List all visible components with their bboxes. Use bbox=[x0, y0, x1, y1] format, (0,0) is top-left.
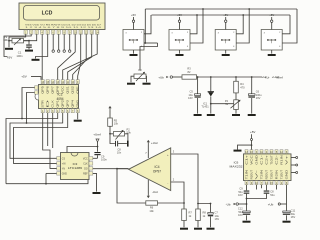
svg-text:QS1: QS1 bbox=[67, 85, 70, 94]
svg-text:QP6: QP6 bbox=[47, 85, 50, 94]
svg-text:-IN: -IN bbox=[62, 169, 65, 171]
IC3 left pin row bbox=[57, 157, 61, 160]
svg-text:D: D bbox=[47, 99, 50, 108]
svg-text:GND: GND bbox=[285, 170, 288, 180]
wire +5V to IC2 pin16 bbox=[31, 77, 41, 80]
wire S3 output B to bus bbox=[236, 9, 249, 43]
svg-text:T2IN: T2IN bbox=[260, 170, 263, 180]
ground (P3 right) bbox=[143, 83, 151, 85]
capacitor C8 10n bbox=[110, 134, 115, 144]
potentiometer P1 (LCD contrast) bbox=[12, 39, 24, 43]
svg-text:R2OUT: R2OUT bbox=[265, 169, 268, 179]
svg-text:+5V: +5V bbox=[250, 130, 255, 134]
svg-text:IC4: IC4 bbox=[155, 165, 160, 169]
wire -Ub node bbox=[238, 203, 246, 205]
svg-text:QS2: QS2 bbox=[72, 85, 75, 94]
wire LCD D0 open stub bbox=[52, 34, 54, 50]
capacitor C8b 50u (V-) bbox=[266, 185, 268, 191]
ground (IC6 top) bbox=[234, 150, 242, 152]
svg-text:16V: 16V bbox=[238, 213, 243, 217]
svg-text:10n: 10n bbox=[117, 151, 122, 155]
capacitor C5 10u bbox=[197, 76, 199, 78]
svg-text:REF: REF bbox=[83, 174, 88, 176]
wire IC3 analog input from op-amp output bbox=[93, 168, 129, 170]
svg-text:16V: 16V bbox=[188, 96, 193, 100]
wire LCD pin2 VDD to +5V bbox=[4, 34, 31, 56]
wire IC3 Vcc to +Uref node bbox=[67, 147, 98, 153]
ground (LCD supply) bbox=[5, 48, 13, 50]
svg-text:R8: R8 bbox=[203, 211, 207, 215]
sensor S3 body bbox=[215, 30, 236, 51]
svg-text:C1+: C1+ bbox=[245, 154, 248, 165]
svg-text:100n: 100n bbox=[16, 54, 23, 58]
svg-text:VCC: VCC bbox=[250, 155, 253, 165]
svg-text:100n: 100n bbox=[101, 158, 107, 162]
wire LCD D6 to IC2 bbox=[68, 34, 92, 79]
svg-text:+Uref: +Uref bbox=[275, 75, 283, 79]
IC6 top pin row bbox=[245, 150, 248, 154]
svg-text:-Ucc: -Ucc bbox=[152, 190, 159, 194]
svg-text:V+: V+ bbox=[285, 154, 288, 165]
svg-text:QP4: QP4 bbox=[72, 99, 75, 108]
wire R5 to trimmer P2 bbox=[110, 126, 113, 134]
trimmer P2 (offset) bbox=[113, 132, 124, 136]
ground (C8, vertical bar) bbox=[127, 141, 129, 147]
sensor S1 body bbox=[123, 30, 144, 51]
sensor S2 body bbox=[169, 30, 190, 51]
ADC IC3 LTC1286 body bbox=[61, 153, 90, 180]
svg-text:T1OUT: T1OUT bbox=[270, 155, 273, 165]
svg-text:TL431: TL431 bbox=[201, 105, 209, 109]
wire +Ub node bbox=[281, 203, 287, 205]
wire IC2 pin stub down bbox=[47, 113, 49, 146]
shunt regulator IC1 TL431 bbox=[210, 76, 212, 78]
svg-text:+Uref: +Uref bbox=[93, 132, 101, 136]
LCD display window bbox=[24, 6, 100, 21]
wire S1 output A to bus bbox=[144, 15, 151, 34]
wire LCD D3 to IC2 bbox=[58, 34, 75, 79]
wire op-amp output feedback loop bbox=[117, 169, 146, 203]
wire IC2 pin down left of IC3 bbox=[43, 113, 57, 168]
ground (P3 left) bbox=[127, 83, 135, 85]
wire LCD RS to IC2 bbox=[41, 34, 43, 79]
LCD module LC1 outer body bbox=[19, 3, 105, 30]
IC2 left pin row bbox=[35, 86, 38, 89]
IC3 right pin row bbox=[89, 157, 93, 160]
resistor R3 bbox=[182, 75, 197, 79]
wire R6 to node bbox=[158, 202, 185, 204]
wire IC2 pin to IC3 pin1 via left bbox=[10, 113, 63, 158]
svg-text:+5V: +5V bbox=[223, 13, 228, 17]
wire S2 output A to bus bbox=[190, 15, 197, 34]
capacitor C1 100n bbox=[28, 41, 30, 45]
ground (IC2) bbox=[74, 120, 82, 122]
wire pot left end to ground rail bbox=[9, 40, 12, 42]
svg-text:T1IN: T1IN bbox=[245, 170, 248, 180]
capacitor C9 100n bbox=[94, 152, 100, 153]
capacitor C7 10u bbox=[198, 204, 211, 213]
wire LCD R/W to ground bbox=[36, 34, 48, 58]
sensor bus wire upper bbox=[145, 8, 297, 10]
svg-text:P3: P3 bbox=[138, 68, 142, 72]
wire IC2 pin to IC3 pin2 via left bbox=[14, 113, 68, 163]
ground (C6) bbox=[248, 114, 256, 116]
svg-text:R1OUT: R1OUT bbox=[250, 169, 253, 179]
svg-text:VSS VDD VO RS R/W E D0 D1 D2 D: VSS VDD VO RS R/W E D0 D1 D2 D3 D4 D5 D6… bbox=[25, 24, 102, 26]
trimmer P3 (bridge balance) bbox=[134, 74, 146, 78]
resistor R4 bbox=[235, 76, 237, 78]
wire LCD pin3 VO to contrast pot bbox=[24, 34, 37, 41]
resistor R8 1k bbox=[197, 203, 199, 205]
capacitor C9 50u bbox=[246, 185, 248, 191]
wire IC6 spare pin stubs bbox=[256, 185, 258, 190]
capacitor C6 100u bbox=[251, 76, 253, 78]
svg-text:GND: GND bbox=[62, 174, 67, 176]
IC6 bottom pin row bbox=[245, 181, 248, 185]
svg-text:10k: 10k bbox=[114, 122, 119, 126]
wire P4 to ground bbox=[235, 110, 237, 114]
op-amp IC4 OP97 bbox=[129, 148, 171, 191]
wire LCD pin1 VSS to ground bbox=[9, 34, 26, 47]
resistor R6 feedback bbox=[146, 201, 158, 205]
svg-text:QP5: QP5 bbox=[42, 85, 45, 94]
resistor R7 1k bbox=[183, 203, 185, 209]
sensor S4 body bbox=[261, 30, 282, 51]
svg-text:+Ucc: +Ucc bbox=[151, 141, 158, 145]
ground (R8) bbox=[194, 228, 202, 230]
svg-text:VCC: VCC bbox=[83, 159, 88, 161]
ground (IC1) bbox=[207, 114, 215, 116]
svg-text:C2-: C2- bbox=[275, 155, 278, 165]
svg-text:16V: 16V bbox=[256, 96, 261, 100]
wire R4 to P4 bbox=[235, 93, 237, 100]
svg-text:VCC: VCC bbox=[62, 86, 65, 94]
wire bottom loop to IC3 bbox=[6, 180, 88, 184]
ground (sensor S3) bbox=[225, 50, 227, 54]
ground (R/W) bbox=[32, 59, 40, 61]
wire LCD D5 to IC2 bbox=[73, 34, 87, 79]
svg-text:DO: DO bbox=[84, 169, 88, 171]
svg-text:-Ub: -Ub bbox=[226, 202, 231, 206]
wire P3 right to ground bbox=[145, 76, 148, 82]
ground (C11) bbox=[283, 221, 291, 223]
svg-text:MAX232: MAX232 bbox=[230, 165, 243, 169]
svg-text:+5V: +5V bbox=[177, 13, 182, 17]
svg-text:16V: 16V bbox=[215, 217, 220, 221]
svg-text:R1IN: R1IN bbox=[280, 155, 283, 165]
IC2 bottom pin row bbox=[41, 109, 44, 113]
svg-text:1 2 3 4 5 6 7 8 9 10 11 12 13: 1 2 3 4 5 6 7 8 9 10 11 12 13 14 bbox=[25, 27, 103, 29]
wire IC2 pin8 to ground bbox=[77, 113, 79, 119]
ground (sensor S2) bbox=[179, 50, 181, 54]
svg-text:C2+: C2+ bbox=[265, 154, 268, 165]
svg-text:QP8: QP8 bbox=[57, 85, 60, 94]
svg-text:+Ub: +Ub bbox=[268, 202, 274, 206]
wire P4 wiper to TL431 leg bbox=[211, 103, 234, 105]
wire LCD D4 to IC2 bbox=[78, 34, 81, 79]
wire S3 output A to bus bbox=[236, 15, 243, 34]
wire P3 left to ground bbox=[131, 76, 134, 82]
ground (C7) bbox=[207, 228, 215, 230]
svg-text:GND: GND bbox=[255, 155, 258, 165]
svg-text:+Ub: +Ub bbox=[158, 76, 164, 80]
ground (C5) bbox=[194, 114, 202, 116]
wire LCD D1 open stub bbox=[58, 34, 60, 50]
svg-text:GND: GND bbox=[77, 100, 80, 108]
capacitor C12 electrolytic bbox=[246, 204, 248, 211]
svg-text:OE: OE bbox=[77, 85, 80, 93]
svg-text:+5V: +5V bbox=[21, 75, 26, 79]
wire +Uref down bbox=[97, 142, 99, 152]
svg-text:10k: 10k bbox=[3, 38, 8, 42]
svg-text:IC3: IC3 bbox=[73, 162, 78, 166]
svg-text:+IN: +IN bbox=[62, 164, 66, 166]
ground (sensor S4) bbox=[271, 50, 273, 54]
svg-text:R7: R7 bbox=[189, 211, 193, 215]
-Ucc supply (op-amp pin 4) bbox=[147, 180, 149, 194]
ground (sensor S1) bbox=[133, 50, 135, 54]
+Ucc supply (op-amp pin 7) bbox=[147, 145, 149, 159]
wire IC3 pin4 to bottom loop bbox=[45, 173, 47, 183]
svg-text:QP7: QP7 bbox=[52, 85, 55, 94]
svg-text:V-: V- bbox=[255, 169, 258, 179]
wire S1 output to trimmer P3 bbox=[140, 43, 158, 71]
wire IC2 pin to far-left loop bbox=[6, 113, 58, 184]
wire LCD D2 open stub bbox=[63, 34, 65, 50]
ground (P4) bbox=[232, 114, 240, 116]
svg-text:STR: STR bbox=[42, 100, 45, 108]
driver IC6 MAX232 body bbox=[244, 154, 292, 181]
svg-text:CS: CS bbox=[62, 159, 66, 161]
svg-text:50u: 50u bbox=[270, 193, 275, 197]
wire LCD D3 open stub bbox=[69, 34, 71, 50]
svg-text:QP2: QP2 bbox=[62, 99, 65, 108]
sensor bus wire lower bbox=[152, 14, 291, 16]
wire LCD D7 to IC2 bbox=[63, 34, 97, 79]
IC2 top pin row bbox=[41, 80, 44, 84]
shift register IC2 4094 body bbox=[39, 85, 79, 109]
svg-text:+5V: +5V bbox=[7, 55, 12, 59]
wire S4 output A to bus bbox=[282, 15, 290, 34]
wire ground to +5V node bbox=[238, 145, 252, 150]
capacitor C11 50u bbox=[286, 185, 288, 211]
svg-text:+Ur: +Ur bbox=[265, 75, 270, 79]
svg-text:CLK: CLK bbox=[83, 164, 88, 166]
svg-text:T2OUT: T2OUT bbox=[270, 169, 273, 179]
svg-text:T1OUT: T1OUT bbox=[280, 169, 283, 179]
wire S1 output B to bus bbox=[144, 42, 158, 44]
ground (R7) bbox=[180, 228, 188, 230]
svg-text:OP97: OP97 bbox=[153, 170, 161, 174]
svg-text:R2IN: R2IN bbox=[275, 170, 278, 180]
wire regulator rail bbox=[197, 76, 263, 78]
svg-text:16V: 16V bbox=[291, 215, 296, 219]
svg-text:LCD: LCD bbox=[42, 10, 53, 16]
svg-text:CLK: CLK bbox=[52, 99, 55, 107]
wire IC2 strobe to left bus bbox=[22, 88, 35, 119]
wire IC3 pin5 to ground bbox=[93, 173, 97, 191]
svg-text:LTC1286: LTC1286 bbox=[68, 166, 83, 170]
svg-text:+5V: +5V bbox=[269, 13, 274, 17]
svg-text:-: - bbox=[167, 181, 168, 185]
trimmer P4 bbox=[234, 100, 239, 110]
ground (C12) bbox=[243, 221, 251, 223]
resistor R5 100k (offset) bbox=[109, 107, 111, 111]
wire IC2 pin stub down 2 bbox=[52, 113, 54, 148]
wire trimmer right to ground bar bbox=[125, 134, 128, 141]
wire IC2 data to left bus bbox=[27, 93, 35, 124]
wire IC3 pin4 stub bbox=[46, 172, 57, 174]
IC6 right pins bbox=[291, 157, 296, 159]
svg-text:10k: 10k bbox=[149, 209, 154, 213]
svg-text:470: 470 bbox=[240, 86, 245, 90]
svg-text:C1-: C1- bbox=[260, 155, 263, 165]
wire IC3 pin8 to +Uref bbox=[93, 157, 98, 159]
svg-text:16V: 16V bbox=[238, 193, 243, 197]
wire +Ub to R3 bbox=[173, 76, 183, 78]
ground (IC3) bbox=[93, 192, 101, 194]
LCD pin row 1-14 bbox=[24, 30, 27, 34]
svg-text:QP3: QP3 bbox=[67, 99, 70, 108]
svg-text:QP1: QP1 bbox=[57, 99, 60, 108]
wire S2 output B to bus bbox=[190, 9, 203, 43]
svg-text:+5V: +5V bbox=[131, 13, 136, 17]
wire S4 output B to bus bbox=[282, 9, 297, 43]
